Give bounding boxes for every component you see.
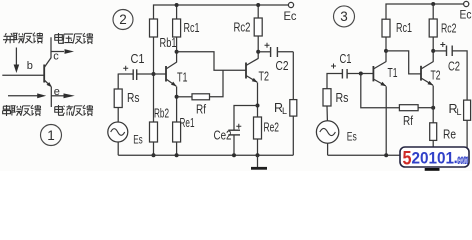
arrow into base (parallel feedback) xyxy=(14,48,20,74)
svg-text:Rf: Rf xyxy=(196,102,206,116)
ground xyxy=(432,155,434,167)
figure number 3 xyxy=(334,6,355,27)
svg-text:Es: Es xyxy=(133,133,143,147)
junction T2 emitter node xyxy=(256,104,260,108)
resistor Rb2 xyxy=(150,122,158,142)
capacitor C1 xyxy=(327,69,373,89)
capacitor C1 xyxy=(118,69,153,80)
wire T1 emitter xyxy=(176,87,178,123)
wire C2 to RL xyxy=(292,52,294,100)
wire Rc2 to rail xyxy=(432,4,434,19)
junction T1 emitter / Rf node xyxy=(175,95,179,99)
wire Re to ground xyxy=(432,140,434,155)
wire ground rail xyxy=(118,154,293,156)
capacitor C2 xyxy=(258,47,293,57)
svg-text:Re1: Re1 xyxy=(180,116,195,130)
source Es xyxy=(316,121,338,143)
figure number 2 xyxy=(113,10,133,30)
svg-text:Ec: Ec xyxy=(284,9,297,23)
label RL xyxy=(274,101,287,116)
resistor Rc2 xyxy=(429,19,437,37)
resistor Re2 xyxy=(254,117,262,139)
wire Re1 to ground rail xyxy=(176,142,178,155)
svg-text:T2: T2 xyxy=(259,70,270,84)
label RL xyxy=(449,102,462,117)
junction T1 collector node xyxy=(384,49,388,53)
wire Rb1 to base node xyxy=(153,37,155,122)
resistor Rs xyxy=(114,89,122,108)
wire RL to ground rail xyxy=(466,120,468,155)
svg-text:Rc2: Rc2 xyxy=(441,21,457,35)
svg-text:Re2: Re2 xyxy=(264,120,280,134)
transistor Q (figure 1) xyxy=(44,58,52,88)
resistor Rf feedback xyxy=(361,74,433,111)
junction Re2 ground xyxy=(256,153,260,157)
junction Rc2 rail xyxy=(431,2,435,6)
wire base T1 xyxy=(154,73,166,75)
resistor Rc1 xyxy=(382,19,390,37)
wire input branch xyxy=(117,74,119,90)
figure number 1 xyxy=(41,125,62,146)
wire RL to ground rail xyxy=(292,116,294,155)
junction T1 base node xyxy=(359,72,363,76)
svg-text:Re: Re xyxy=(443,127,456,141)
junction T2 collector node xyxy=(431,49,435,53)
wire Es to ground rail xyxy=(327,143,329,155)
arrow current feedback output xyxy=(51,93,75,98)
svg-text:L: L xyxy=(457,107,462,117)
wire Rc1 to T1 collector xyxy=(385,37,387,62)
svg-text:Rb1: Rb1 xyxy=(160,36,177,50)
svg-text:Ec: Ec xyxy=(460,8,472,22)
wire Rs to Es xyxy=(117,108,119,123)
resistor Re xyxy=(430,123,437,141)
polarity + of C1 xyxy=(331,64,336,69)
svg-text:C1: C1 xyxy=(340,52,352,66)
junction T1 collector node xyxy=(175,50,179,54)
junction T2 collector node xyxy=(256,50,260,54)
junction Rb2 ground xyxy=(152,153,156,157)
resistor Rc2 xyxy=(254,18,262,36)
svg-text:C2: C2 xyxy=(448,60,460,74)
svg-text:Rc1: Rc1 xyxy=(184,21,200,35)
junction Re1 ground xyxy=(175,153,179,157)
svg-text:c: c xyxy=(53,51,59,63)
polarity + of C1 xyxy=(123,66,128,71)
svg-text:Rc1: Rc1 xyxy=(396,21,412,35)
svg-text:3: 3 xyxy=(340,9,348,24)
svg-text:C2: C2 xyxy=(276,59,289,73)
arrow voltage feedback output xyxy=(51,49,74,54)
wire coupling T1 collector to T2 base xyxy=(386,51,421,74)
resistor Rb1 xyxy=(150,19,158,37)
wire top supply rail xyxy=(386,4,464,19)
wire T2 emitter xyxy=(432,86,434,123)
wire T2 collector xyxy=(432,37,434,62)
svg-text:Rb2: Rb2 xyxy=(154,106,169,120)
svg-text:20101: 20101 xyxy=(412,149,455,167)
junction Ce2 ground xyxy=(232,153,236,157)
wire Rb2 to ground rail xyxy=(153,142,155,155)
wire Rs to Es xyxy=(326,106,328,121)
wire Rc2 to rail xyxy=(257,5,259,18)
label 串联反馈 (series feedback) xyxy=(3,105,41,116)
svg-text:T1: T1 xyxy=(388,66,398,80)
ground bar (below watermark) xyxy=(425,168,440,171)
terminal Ec xyxy=(288,2,293,7)
resistor Rc1 xyxy=(173,19,181,37)
wire Re2 to ground rail xyxy=(257,139,259,155)
junction base node T1 xyxy=(152,72,156,76)
wire T1 collector xyxy=(176,37,178,62)
terminal Ec xyxy=(464,1,469,6)
resistor Re1 xyxy=(173,122,181,142)
resistor Rf xyxy=(177,70,223,100)
junction T1 emitter ground xyxy=(384,153,388,157)
wire collector xyxy=(50,37,52,58)
polarity + of C2 xyxy=(440,42,445,47)
wire Es to ground rail xyxy=(117,142,119,155)
svg-text:Ce2: Ce2 xyxy=(214,128,232,142)
wire coupling T1 collector to T2 base xyxy=(177,52,246,71)
transistor T1 xyxy=(166,62,177,86)
resistor RL xyxy=(290,100,297,117)
junction Rc2 rail xyxy=(256,3,260,7)
junction Rc1 rail xyxy=(175,3,179,7)
svg-text:2: 2 xyxy=(119,12,127,27)
polarity + of Ce2 xyxy=(236,124,241,129)
junction T2 emitter / Rf node xyxy=(431,106,435,110)
resistor Rs xyxy=(323,89,331,106)
wire T2 collector xyxy=(257,36,259,59)
svg-text:Rs: Rs xyxy=(127,91,140,105)
svg-text:Rs: Rs xyxy=(336,91,349,105)
svg-text:1: 1 xyxy=(47,128,55,143)
svg-text:Rc2: Rc2 xyxy=(234,20,251,34)
wire emitter xyxy=(50,87,52,107)
source Es xyxy=(108,122,128,142)
ground xyxy=(251,155,267,168)
transistor T1 xyxy=(373,62,386,87)
transistor T2 xyxy=(421,62,433,86)
svg-text:b: b xyxy=(27,60,33,72)
svg-text:com: com xyxy=(457,152,468,166)
resistor RL xyxy=(464,100,471,120)
arrow series feedback input xyxy=(8,93,46,98)
wire base xyxy=(2,74,44,76)
capacitor C2 xyxy=(433,46,467,101)
capacitor Ce2 xyxy=(228,106,257,156)
wire T1 emitter to ground rail xyxy=(385,86,387,155)
svg-text:5: 5 xyxy=(403,147,412,169)
transistor T2 xyxy=(246,58,258,82)
svg-text:Rf: Rf xyxy=(403,114,413,128)
label 并联反馈 (parallel feedback) xyxy=(3,33,43,44)
wire Rc1 to rail xyxy=(176,5,178,19)
wire ground rail xyxy=(328,154,468,156)
label 电压反馈 (voltage feedback) xyxy=(55,33,93,44)
svg-text:C1: C1 xyxy=(131,52,145,66)
wire T2 emitter xyxy=(257,83,259,118)
svg-text:T1: T1 xyxy=(177,70,188,84)
wire top supply rail xyxy=(154,5,289,19)
svg-text:L: L xyxy=(282,106,287,116)
watermark box 520101.com xyxy=(400,147,469,169)
polarity + of C2 xyxy=(265,43,270,48)
svg-text:Es: Es xyxy=(347,130,357,144)
svg-text:T2: T2 xyxy=(431,68,441,82)
label 电流反馈 (current feedback) xyxy=(55,105,93,116)
